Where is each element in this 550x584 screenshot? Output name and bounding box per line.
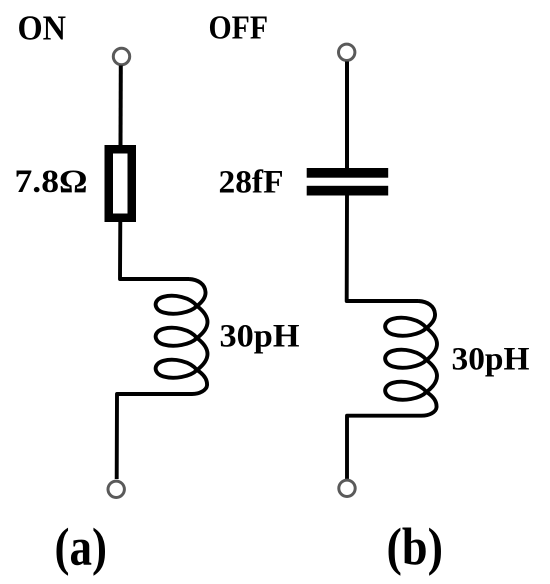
svg-text:28fF: 28fF — [219, 165, 284, 201]
terminal T1 top of circuit (a) — [113, 48, 129, 64]
inductor L1 coil 30pH — [156, 279, 208, 394]
terminal T2 bottom of circuit (a) — [108, 481, 124, 497]
svg-text:30pH: 30pH — [220, 319, 300, 355]
capacitor C1 bottom plate — [307, 186, 389, 196]
inductor L2 coil 30pH — [385, 301, 437, 416]
wire from T3 to capacitor C1 — [345, 62, 349, 170]
resistor R1 body — [109, 149, 132, 218]
svg-text:7.8Ω: 7.8Ω — [15, 164, 88, 200]
wire from L1 left and down to terminal T2 — [117, 394, 192, 479]
svg-text:(a): (a) — [55, 518, 108, 577]
wire from T1 to resistor R1 — [119, 66, 123, 147]
svg-text:30pH: 30pH — [452, 342, 530, 378]
wire from L2 left and down to terminal T4 — [347, 416, 422, 479]
terminal T3 top of circuit (b) — [339, 44, 355, 60]
terminal T4 bottom of circuit (b) — [339, 480, 355, 496]
svg-text:(b): (b) — [387, 518, 444, 577]
svg-text:ON: ON — [18, 8, 67, 47]
svg-text:OFF: OFF — [209, 10, 269, 47]
wire from R1 down and right to inductor L1 — [120, 221, 189, 279]
capacitor C1 top plate — [307, 168, 389, 178]
wire from C1 down and right to inductor L2 — [347, 196, 419, 302]
